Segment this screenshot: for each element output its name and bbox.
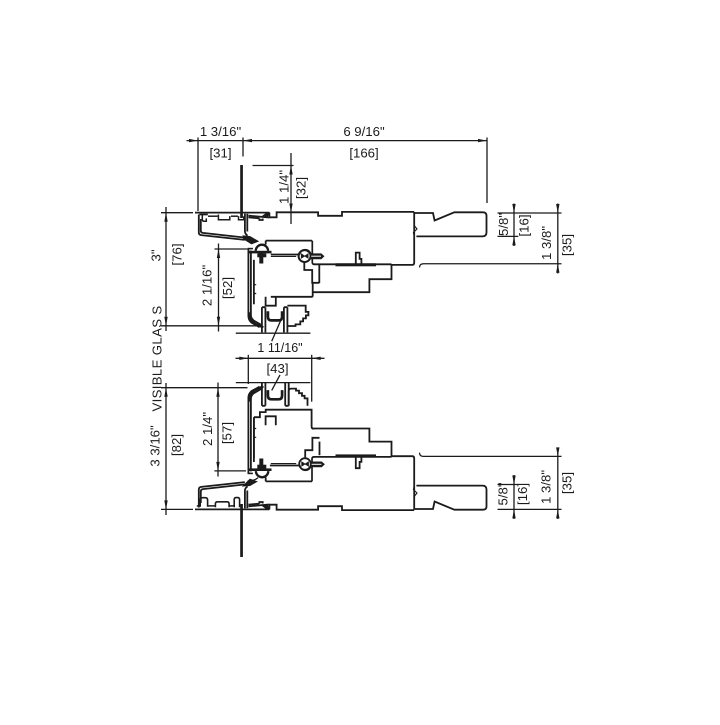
top frame head profile: [195, 212, 269, 214]
dimension 5/8 and 1 3/8 top: [498, 212, 562, 214]
glass pane line top: [240, 165, 243, 218]
svg-text:1 1/4": 1 1/4": [276, 170, 291, 204]
svg-text:[52]: [52]: [220, 277, 235, 299]
svg-text:[166]: [166]: [349, 145, 378, 160]
frame-stile gasket wedge top: [243, 236, 258, 244]
dimension 5/8 and 1 3/8 bottom: [498, 508, 562, 510]
glazing strip top: [336, 263, 377, 266]
svg-text:1 11/16": 1 11/16": [257, 341, 302, 355]
dimension 2 1/16: [215, 248, 248, 250]
stile hook cap top: [256, 245, 268, 251]
stile tab top: [266, 297, 276, 306]
svg-text:6 9/16": 6 9/16": [343, 124, 385, 139]
glazing U gasket top: [268, 311, 282, 320]
svg-text:[57]: [57]: [219, 422, 234, 444]
dimension 1 1/4in: [253, 165, 294, 167]
glass pane line bottom: [240, 504, 243, 557]
interlock stile body bottom: [266, 480, 312, 482]
svg-text:3": 3": [148, 249, 163, 261]
glass stop bars top: [262, 307, 266, 332]
svg-text:[82]: [82]: [169, 434, 184, 456]
interlock stile body top: [266, 240, 312, 242]
roller bolt bottom: [299, 458, 311, 470]
stile tab bottom: [266, 416, 276, 425]
stile hook cap bottom: [256, 471, 268, 477]
svg-text:[35]: [35]: [560, 472, 575, 494]
dimension 2 1/4: [214, 470, 246, 472]
reference line y458 right: [420, 453, 562, 457]
svg-text:[16]: [16]: [515, 483, 530, 505]
svg-text:5/8": 5/8": [496, 213, 511, 236]
stile body outline bottom: [254, 410, 314, 429]
glazing bead rail bottom: [314, 456, 392, 458]
svg-text:[31]: [31]: [210, 145, 232, 160]
svg-text:[43]: [43]: [267, 361, 289, 376]
sliding panel top rail outline: [269, 212, 414, 217]
dimension 1 3/16in: [197, 138, 199, 212]
svg-text:[32]: [32]: [293, 177, 308, 199]
wiper profile top: [287, 306, 308, 326]
wiper profile bottom: [289, 389, 308, 406]
svg-text:1 3/8": 1 3/8": [539, 226, 554, 260]
svg-text:1 3/8": 1 3/8": [539, 470, 554, 504]
svg-text:3 3/16": 3 3/16": [147, 425, 162, 467]
stile left wall bottom: [248, 387, 259, 474]
reference line y264 right: [420, 264, 562, 268]
pocket face line bottom: [236, 382, 311, 384]
svg-text:[16]: [16]: [516, 215, 531, 237]
svg-text:VISIBLE GLAS S: VISIBLE GLAS S: [149, 305, 164, 411]
roller bolt top: [299, 250, 311, 262]
stile left wall top: [248, 248, 259, 327]
dimension 1 11/16 middle: [247, 355, 249, 384]
dimension 3in left: [161, 212, 193, 214]
svg-text:2 1/16": 2 1/16": [199, 265, 214, 307]
glass stop bars bottom: [262, 383, 266, 406]
dimension 3 3/16 left: [161, 387, 248, 389]
glazing strip bottom: [336, 454, 377, 457]
pocket face line top: [236, 332, 311, 334]
svg-text:2 1/4": 2 1/4": [200, 412, 215, 446]
sliding panel bottom rail outline: [269, 505, 414, 510]
clip tab top: [356, 253, 362, 264]
bottom frame sill profile: [195, 508, 269, 510]
svg-text:5/8": 5/8": [496, 482, 511, 505]
svg-text:1 3/16": 1 3/16": [200, 124, 242, 139]
frame-stile gasket wedge bottom: [243, 479, 257, 486]
clip tab bottom: [356, 457, 362, 468]
glazing bead rail top: [314, 263, 392, 265]
glazing U gasket bottom: [268, 390, 282, 399]
svg-text:[76]: [76]: [169, 244, 184, 266]
svg-text:[35]: [35]: [559, 234, 574, 256]
